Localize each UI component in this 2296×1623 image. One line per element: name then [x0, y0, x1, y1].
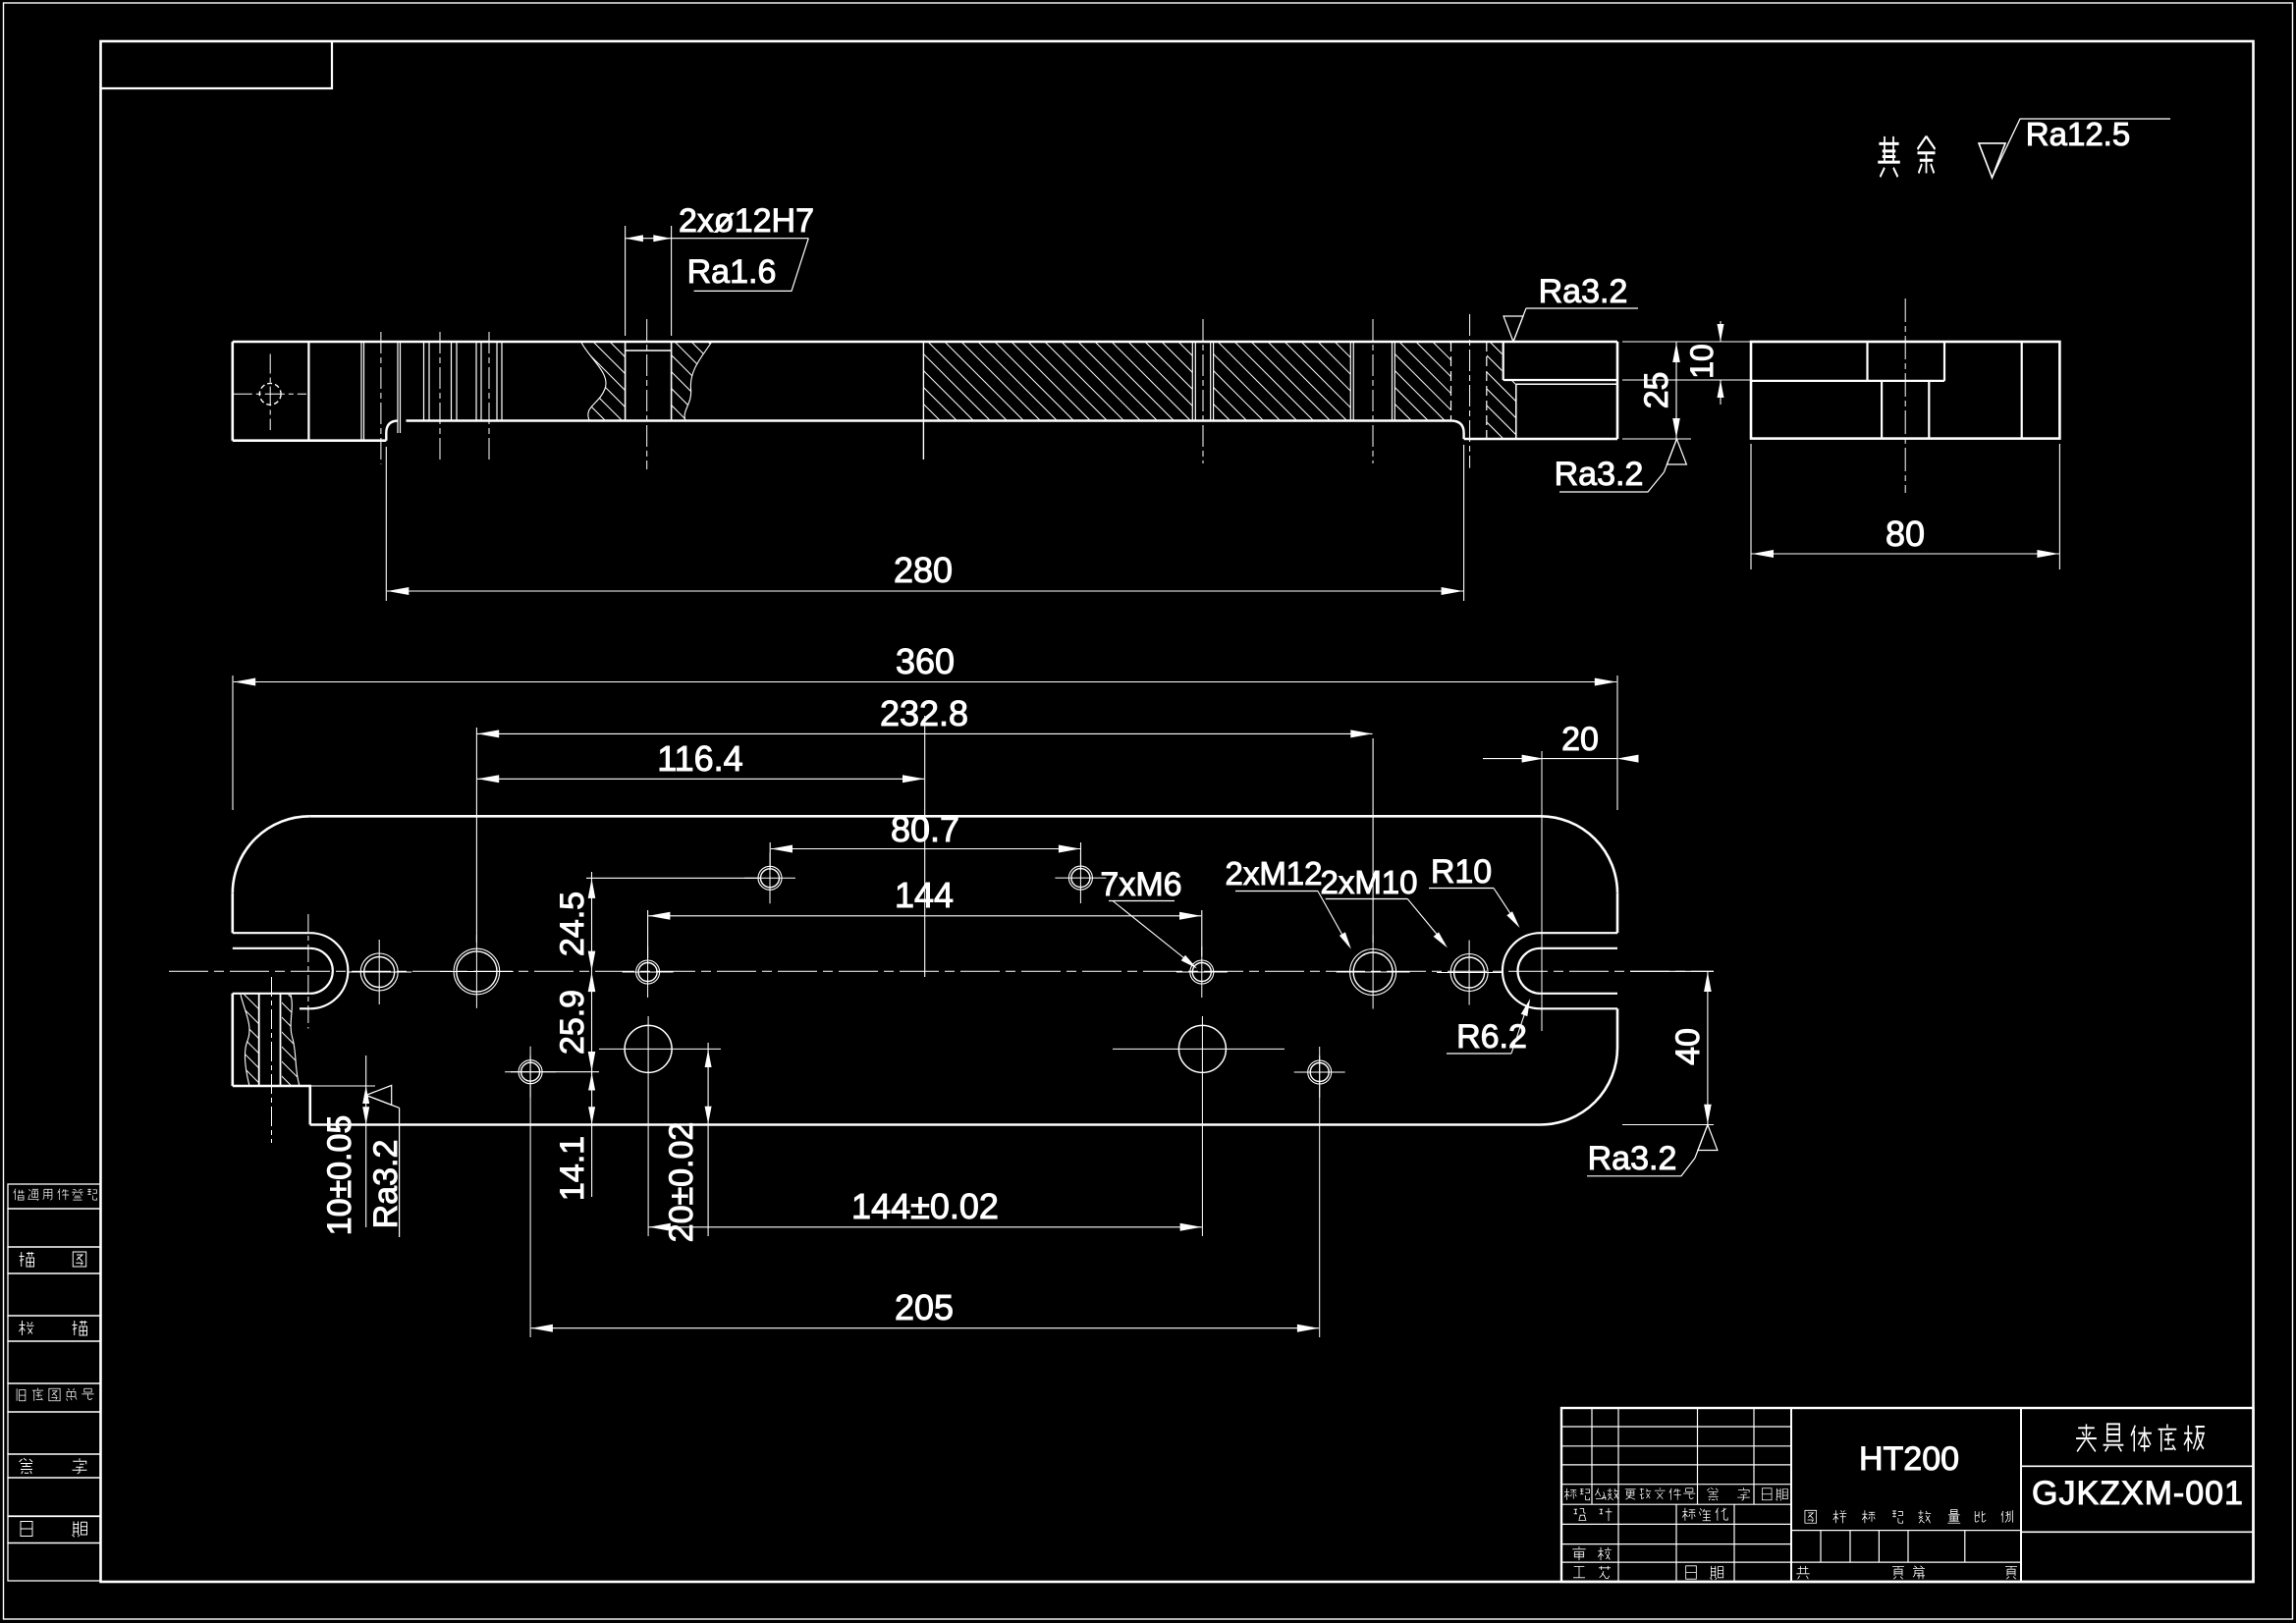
slot hole in left block [259, 383, 281, 405]
dim 10 (right of section) [1622, 379, 1751, 381]
section hatching [1394, 342, 1450, 421]
dim 280 [385, 447, 387, 601]
M6 tapped hole [761, 869, 780, 888]
svg-text:R10: R10 [1431, 853, 1492, 891]
svg-text:Ra3.2: Ra3.2 [367, 1140, 405, 1229]
right edge lower [1616, 1008, 1619, 1048]
svg-text:40: 40 [1669, 1028, 1707, 1065]
general roughness note [1878, 136, 1935, 177]
svg-text:Ra3.2: Ra3.2 [1588, 1140, 1677, 1177]
svg-text:GJKZXM-001: GJKZXM-001 [2032, 1475, 2244, 1512]
main centerline [169, 970, 1714, 972]
side view outline [1751, 342, 2059, 439]
left edge upper [232, 893, 235, 933]
svg-text:10: 10 [1684, 344, 1720, 379]
svg-text:80: 80 [1886, 514, 1925, 554]
left block divider [307, 342, 309, 441]
top-right corner [1541, 816, 1618, 893]
svg-text:2xø12H7: 2xø12H7 [679, 202, 814, 240]
svg-text:232.8: 232.8 [880, 693, 968, 733]
tapped hole (section) [423, 342, 425, 421]
svg-text:HT200: HT200 [1859, 1440, 1959, 1478]
clearance hole [1178, 1025, 1226, 1072]
svg-text:Ra1.6: Ra1.6 [687, 253, 777, 291]
svg-text:280: 280 [894, 550, 953, 590]
dim 24.5 / 25.9 [586, 877, 761, 879]
dim 14.1 [591, 1065, 593, 1197]
dim 20 (corner) [1483, 758, 1544, 760]
svg-text:116.4: 116.4 [657, 738, 742, 779]
Ra3.2 bottom [1664, 439, 1686, 472]
M12 tapped hole (section) [1349, 342, 1351, 421]
break line [241, 995, 249, 1086]
left edge lower [232, 994, 235, 1086]
step line [1751, 380, 1944, 382]
svg-text:144: 144 [895, 875, 954, 915]
svg-text:20: 20 [1561, 721, 1599, 758]
clearance hole [625, 1025, 672, 1072]
dowel hole 2x12H7 (broken-out section) [625, 342, 627, 421]
break line [581, 342, 606, 421]
inner vertical [2021, 342, 2023, 439]
dim 20±0.02 [707, 1043, 709, 1236]
svg-text:10±0.05: 10±0.05 [321, 1115, 358, 1236]
break line [291, 995, 300, 1086]
M6 tapped hole [638, 963, 657, 982]
dim 144±0.02 [649, 1226, 1202, 1228]
top-left corner [233, 816, 310, 893]
dim 10±0.05 + Ra3.2 left [301, 1085, 375, 1087]
dim 205 [531, 1327, 1319, 1329]
break line [684, 342, 712, 421]
svg-text:2xM12: 2xM12 [1225, 855, 1322, 892]
hole wall [1881, 381, 1883, 439]
svg-text:Ra3.2: Ra3.2 [1555, 456, 1644, 493]
bottom-right corner [1541, 1048, 1618, 1125]
M6 tapped hole [1192, 963, 1211, 982]
dowel hole 12H7 [457, 951, 497, 992]
top edge [310, 815, 1541, 818]
M10 tapped hole [1454, 957, 1485, 988]
section hatching [1214, 342, 1351, 421]
part title 夹具体底板 [2076, 1424, 2205, 1451]
M6 tapped hole [1310, 1063, 1329, 1082]
title block [1561, 1408, 2254, 1582]
M10 tapped hole [364, 957, 395, 988]
dim 40 + Ra3.2 right [1630, 970, 1714, 972]
dim 25 [1622, 341, 1751, 343]
svg-text:7xM6: 7xM6 [1100, 866, 1181, 903]
M6 tapped hole (section) [1191, 342, 1193, 421]
dim 360 [232, 676, 234, 810]
svg-text:25: 25 [1638, 372, 1675, 409]
tapped hole (section) [475, 342, 477, 421]
svg-text:205: 205 [895, 1287, 954, 1327]
top-left corner box [101, 41, 333, 88]
dim 80.7 [769, 842, 771, 870]
dim 116.4 [924, 716, 926, 977]
M10 centerline [1469, 314, 1471, 468]
dim 232.8 [475, 728, 477, 943]
svg-text:24.5: 24.5 [554, 892, 591, 956]
M6 tapped hole [1071, 869, 1090, 888]
svg-text:Ra3.2: Ra3.2 [1539, 273, 1628, 310]
svg-text:25.9: 25.9 [554, 990, 591, 1055]
dim 2x12H7 + Ra1.6 [625, 226, 627, 336]
section hatching [922, 342, 924, 460]
dim 144 [647, 910, 649, 958]
right open slot R10/R6.2 [1541, 932, 1618, 934]
svg-text:Ra12.5: Ra12.5 [2026, 116, 2130, 152]
svg-text:144±0.02: 144±0.02 [851, 1186, 999, 1226]
svg-text:80.7: 80.7 [891, 809, 959, 849]
M10 tapped hole (section) [360, 342, 362, 441]
bottom edge [310, 1123, 1541, 1126]
right edge upper [1616, 893, 1619, 933]
svg-text:2xM10: 2xM10 [1320, 864, 1417, 900]
svg-text:14.1: 14.1 [554, 1136, 591, 1201]
left margin label boxes [8, 1184, 101, 1209]
svg-text:360: 360 [896, 641, 955, 681]
centerline [1904, 298, 1906, 493]
dim 80 [1750, 444, 1752, 569]
bottom-left step [233, 1086, 310, 1125]
left open slot R10/R6.2 [233, 932, 310, 934]
M12 tapped hole [1353, 952, 1393, 992]
section view outline [233, 341, 1617, 344]
M6 tapped hole [521, 1062, 540, 1081]
Ra3.2 top [1503, 308, 1526, 342]
